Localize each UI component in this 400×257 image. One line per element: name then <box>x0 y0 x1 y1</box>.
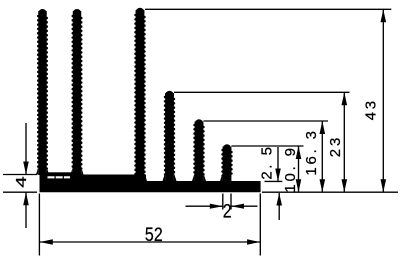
fin F2 <box>71 9 84 175</box>
dim 2: extension lines <box>222 194 224 210</box>
dim 52: extension line left <box>38 194 40 256</box>
fin F4 <box>163 91 177 182</box>
arrowhead 2.5 down (upper) <box>275 169 281 182</box>
fin F1 <box>36 9 49 175</box>
arrow line 2.5 upper <box>277 147 279 181</box>
extension line 10.9 <box>232 145 304 147</box>
arrowhead 23 down <box>342 179 348 192</box>
arrowhead 10.9 down <box>296 179 302 192</box>
arrowhead 23 up <box>342 92 348 105</box>
dim 4: arrow line upper <box>25 123 27 175</box>
dim 52: extension line right <box>259 194 261 256</box>
arrowhead 16.3 down <box>320 179 326 192</box>
svg-text:43: 43 <box>363 98 380 120</box>
dimension line 10.9 <box>298 146 300 192</box>
svg-text:4: 4 <box>12 176 29 187</box>
arrowhead 43 down <box>381 179 387 192</box>
raised pad between fin1 and fin2 <box>47 172 74 184</box>
dimension line 16.3 <box>321 121 323 192</box>
dim 4: arrow line lower <box>25 192 27 228</box>
arrowhead 2.5 up (lower) <box>276 193 282 206</box>
dim 4: extension lines left <box>3 174 37 176</box>
dim 2: arrow lines <box>186 205 223 207</box>
dimension line 23 <box>343 92 345 192</box>
extension line top (43) <box>145 8 391 10</box>
extension line 16.3 <box>204 120 329 122</box>
svg-text:23: 23 <box>327 135 344 157</box>
groove white line on pad <box>48 176 71 178</box>
fin F6 <box>220 144 231 182</box>
svg-text:2. 5: 2. 5 <box>259 145 276 180</box>
arrowhead 4 down (upper) <box>23 162 29 175</box>
arrowhead 16.3 up <box>320 121 326 134</box>
svg-text:16. 3: 16. 3 <box>303 128 320 175</box>
arrowhead 52 left <box>40 239 53 244</box>
fin F5 <box>192 119 206 182</box>
arrow line 2.5 lower <box>278 193 280 220</box>
fin F3 <box>133 8 147 182</box>
arrowhead 4 up (lower) <box>23 192 29 205</box>
arrowhead 10.9 up <box>296 146 302 159</box>
dimension line 43 <box>382 9 384 192</box>
svg-text:10. 9: 10. 9 <box>282 145 299 192</box>
extension line 2.5 <box>265 180 283 182</box>
extension line 23 <box>174 91 350 93</box>
arrowhead 2 right-pointing (left side) <box>210 204 223 209</box>
arrowhead 43 up <box>381 9 387 22</box>
svg-text:52: 52 <box>145 224 163 246</box>
arrowhead 52 right <box>247 239 260 244</box>
dimension line 52 <box>40 241 260 243</box>
arrowhead 2 left-pointing (right side) <box>231 204 244 209</box>
heatsink base plate <box>40 172 261 192</box>
extension line bottom right <box>262 191 398 193</box>
svg-text:2: 2 <box>223 200 232 222</box>
